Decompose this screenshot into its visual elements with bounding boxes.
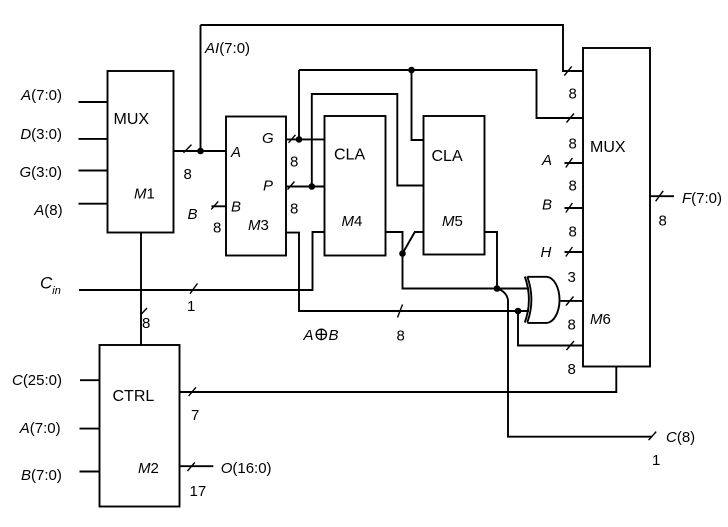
svg-text:A(7:0): A(7:0): [20, 87, 62, 104]
svg-text:A(7:0): A(7:0): [19, 420, 61, 437]
node G branch to M5: [408, 67, 415, 74]
svg-text:B: B: [542, 197, 552, 214]
svg-text:7: 7: [191, 407, 199, 424]
svg-text:8: 8: [290, 201, 298, 218]
svg-text:8: 8: [569, 86, 577, 103]
wire A(8) stub: [79, 203, 108, 205]
wire B stub into M6: [565, 207, 584, 209]
node M4 carry branch: [399, 250, 406, 257]
bus slash on B stub: [566, 203, 573, 213]
svg-text:C(25:0): C(25:0): [12, 372, 62, 389]
bus slash on M1-M2 wire: [141, 308, 147, 315]
svg-text:F(7:0): F(7:0): [682, 190, 722, 207]
wire G distribution run to M6 input 2: [299, 70, 583, 118]
svg-text:P: P: [263, 178, 273, 195]
svg-text:B: B: [329, 327, 339, 344]
svg-text:C(8): C(8): [666, 429, 695, 446]
svg-text:AI(7:0): AI(7:0): [204, 40, 250, 57]
svg-text:B: B: [188, 206, 198, 223]
svg-text:17: 17: [190, 483, 207, 500]
bus slash on O output: [187, 463, 194, 472]
svg-text:CLA: CLA: [432, 148, 463, 165]
wire M4 carry output: [386, 232, 530, 289]
svg-text:1: 1: [187, 298, 195, 315]
svg-text:8: 8: [568, 361, 576, 378]
svg-text:M6: M6: [590, 311, 611, 328]
svg-text:3: 3: [568, 269, 576, 286]
wire AI(7:0) top run to M6: [201, 25, 584, 71]
xor gate U1: [525, 277, 560, 323]
svg-text:O(16:0): O(16:0): [221, 460, 272, 477]
svg-text:8: 8: [213, 220, 221, 237]
svg-text:M1: M1: [134, 186, 155, 203]
svg-text:8: 8: [397, 328, 405, 345]
node AI junction: [197, 148, 204, 155]
mux M1: [108, 71, 174, 233]
svg-text:CTRL: CTRL: [113, 388, 155, 405]
svg-text:8: 8: [569, 136, 577, 153]
bus slash on A stub: [566, 158, 573, 168]
bus slash at M6 input 1: [564, 66, 571, 75]
wire M2 select output to M6 bottom: [180, 367, 617, 393]
svg-text:A: A: [541, 152, 552, 169]
bus slash at M6 input 2: [567, 114, 575, 123]
wire M4 carry diagonal to M5 Cin: [403, 232, 424, 254]
bus slash on P output: [288, 182, 295, 190]
wire C(25:0) stub: [80, 379, 100, 381]
wire M1 output to M3 A: [174, 150, 227, 152]
wire F(7:0) output: [650, 195, 674, 197]
node G junction: [296, 136, 303, 143]
svg-text:M2: M2: [138, 460, 159, 477]
block M2: [100, 345, 180, 507]
svg-text:1: 1: [652, 452, 660, 469]
wire G branch down to M5: [412, 70, 424, 140]
svg-text:8: 8: [659, 213, 667, 230]
svg-text:A: A: [230, 144, 241, 161]
bus slash on G output: [289, 135, 296, 143]
svg-text:8: 8: [142, 315, 150, 332]
block M3: [226, 117, 286, 256]
node P junction: [309, 183, 316, 190]
wire G(3:0) stub: [79, 170, 108, 172]
svg-text:B: B: [231, 199, 241, 216]
bus slash on M1 output: [184, 145, 192, 153]
wire M5 carry output: [485, 232, 498, 289]
wire D(3:0) stub: [79, 138, 108, 140]
svg-text:M3: M3: [248, 217, 269, 234]
svg-text:8: 8: [568, 317, 576, 334]
mux M6: [583, 48, 650, 367]
wire Cin to M4: [79, 232, 325, 290]
svg-text:8: 8: [290, 154, 298, 171]
block M5: [424, 116, 485, 255]
wire P distribution over M4 to M5: [312, 94, 424, 187]
wire A stub into M6: [565, 162, 584, 164]
wire AI riser: [200, 25, 202, 151]
wire carry out to C(8): [497, 289, 652, 437]
svg-text:MUX: MUX: [114, 111, 150, 128]
svg-text:B(7:0): B(7:0): [21, 467, 62, 484]
svg-text:H: H: [541, 244, 552, 261]
wire A xor B branch to M6 bottom input: [518, 311, 583, 346]
bus slash on B stub: [211, 201, 218, 209]
bus slash on F output: [656, 191, 664, 202]
svg-text:M4: M4: [342, 213, 363, 230]
svg-text:8: 8: [184, 166, 192, 183]
block M4: [325, 116, 386, 256]
svg-text:G(3:0): G(3:0): [19, 164, 62, 181]
bus slash on C(8): [649, 432, 657, 441]
wire B(7:0) stub M2: [80, 471, 100, 473]
svg-text:D(3:0): D(3:0): [20, 126, 62, 143]
wire A(7:0) stub: [79, 101, 108, 103]
svg-text:A: A: [303, 327, 314, 344]
bus slash on xor output: [566, 297, 574, 306]
wire G riser: [298, 70, 300, 139]
wire O(16:0) output: [180, 465, 214, 467]
wire M3 carry output (A xor B net): [286, 233, 529, 311]
wire H stub into M6: [565, 251, 584, 253]
wire xor output to M6: [560, 300, 583, 302]
bus slash on Cin: [190, 283, 198, 293]
node carry junction: [494, 285, 501, 292]
svg-text:CLA: CLA: [334, 147, 365, 164]
svg-text:A(8): A(8): [33, 202, 62, 219]
bus slash on H stub: [566, 247, 573, 257]
bus slash on M6 bottom input: [567, 341, 575, 350]
wire M3 G output to M4: [286, 138, 325, 140]
net label A xor B: [303, 327, 339, 344]
node A xor B branch: [515, 308, 522, 315]
svg-text:Cin: Cin: [40, 274, 61, 298]
bus slash on A xor B wire: [398, 305, 403, 318]
wire M3 P output to M4: [286, 186, 325, 188]
svg-text:G: G: [262, 130, 274, 147]
svg-text:8: 8: [569, 224, 577, 241]
bus slash on select wire: [189, 387, 196, 396]
svg-text:8: 8: [569, 178, 577, 195]
svg-text:M5: M5: [442, 213, 463, 230]
wire M1 to M2 select: [140, 233, 142, 346]
svg-text:MUX: MUX: [590, 139, 626, 156]
wire B stub into M3: [212, 205, 227, 207]
wire A(7:0) stub M2: [80, 428, 100, 430]
